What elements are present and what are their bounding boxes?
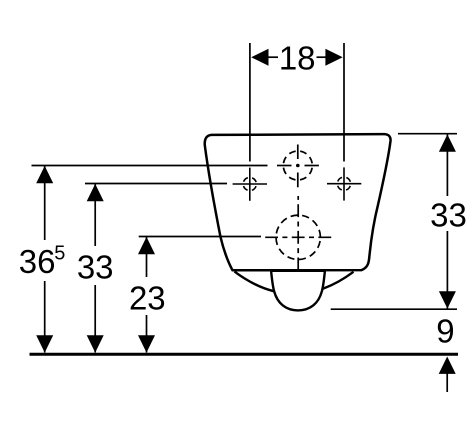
svg-text:23: 23: [129, 280, 166, 317]
dim 23 down arrow: [138, 335, 155, 352]
supply hole center dot: [296, 164, 300, 168]
svg-text:33: 33: [430, 197, 467, 234]
dim 365 down arrow: [36, 335, 53, 352]
svg-text:33: 33: [77, 248, 114, 285]
dim 9 below-floor arrow: [439, 357, 456, 374]
dim 33 left vertical line: [94, 184, 96, 246]
dim 33 right vertical line: [446, 135, 448, 197]
outlet trap: [271, 271, 325, 311]
right fixing hole dashed circle: [337, 177, 350, 190]
dim 365 up arrow: [36, 166, 53, 183]
dim 33 right top extension line: [398, 133, 457, 135]
left fixing hole dashed circle: [243, 177, 256, 190]
dim 18 right arrow: [325, 49, 342, 66]
left fixing hole cross: [233, 168, 267, 201]
supply hole dashed circle: [283, 151, 312, 180]
svg-text:9: 9: [436, 313, 454, 350]
outlet hole dashed circle: [276, 215, 320, 259]
outlet hole centerline vertical: [297, 196, 299, 270]
dim 18 right extension line: [343, 43, 345, 162]
supply hole cross: [277, 145, 319, 188]
dim 365 extension line: [32, 165, 268, 167]
dim 33 left extension line: [85, 183, 227, 185]
dim 33 left down arrow: [87, 335, 104, 352]
toilet body outline: [205, 134, 391, 270]
svg-text:18: 18: [279, 39, 316, 76]
dim 18 left extension line: [249, 43, 251, 162]
svg-text:36: 36: [19, 243, 56, 280]
dim 365 vertical line: [44, 166, 46, 240]
right fixing hole cross: [327, 167, 361, 200]
dim 23 extension line: [139, 236, 261, 238]
outlet hole centerline horizontal: [264, 236, 333, 238]
svg-text:5: 5: [54, 242, 65, 264]
dim 23 vertical line: [146, 237, 148, 277]
dim 18 line segments: [266, 56, 278, 58]
dim 33 right up arrow: [439, 134, 456, 151]
dim 33 left up arrow: [87, 184, 104, 201]
floor line: [30, 353, 459, 356]
dim 33 right bottom extension line: [331, 308, 457, 310]
dim 23 up arrow: [138, 237, 155, 254]
dim 33 right down arrow: [439, 291, 456, 308]
bowl under-arc: [235, 272, 354, 294]
dim 18 left arrow: [251, 49, 268, 66]
